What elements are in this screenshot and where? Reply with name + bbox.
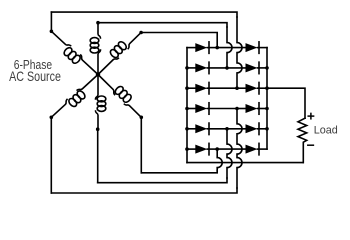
node DL terminal — [50, 116, 54, 120]
node mid row5 — [225, 127, 229, 131]
node right bus row3 — [265, 86, 269, 90]
diode D11 row5 right — [227, 123, 267, 135]
wire D terminal down to bottom line — [97, 129, 99, 183]
node right bus row5 — [265, 127, 269, 131]
diode D10 row4 right — [237, 103, 267, 115]
node D terminal — [96, 127, 100, 131]
diode D3 row3 left — [187, 82, 237, 94]
diode D5 row5 left — [187, 123, 227, 135]
label + — [308, 113, 313, 118]
label - — [308, 144, 314, 146]
node mid row6 — [215, 147, 219, 151]
node right bus row4 — [265, 107, 269, 111]
diode D4 row4 left — [187, 103, 237, 115]
node U terminal — [96, 21, 100, 25]
node star center — [96, 72, 100, 76]
node mid row4 — [235, 107, 239, 111]
wire right bus — [266, 48, 268, 150]
wire DR terminal down to bottom line — [140, 117, 142, 173]
inductor L6 down-right arm — [96, 69, 147, 120]
node mid row3 — [235, 86, 239, 90]
wire vertical x=237 down to row3, hops rows1,2 — [237, 17, 242, 88]
wire DL terminal down to bottom line — [50, 117, 52, 193]
diode D2 row2 left — [187, 62, 227, 74]
wire left bus — [186, 48, 188, 163]
wire positive tap row3 to load — [267, 88, 305, 118]
node left bus row6 — [185, 147, 189, 151]
inductor L5 down-left arm — [50, 73, 104, 124]
inductor L2 up-right arm — [92, 27, 143, 77]
node mid row2 — [225, 66, 229, 70]
node right bus row2 — [265, 66, 269, 70]
wire top line 1 (UL phase to x=237) — [51, 12, 237, 17]
svg-text:AC Source: AC Source — [9, 69, 61, 84]
node left bus row2 — [185, 66, 189, 70]
inductor L4 down arm — [96, 75, 106, 130]
inductor L3 up-left arm — [46, 29, 100, 80]
node UL terminal — [50, 30, 54, 34]
wire bottom line (DR phase to x=217) — [141, 171, 217, 173]
wire top line 2 (U phase to x=227) — [98, 23, 227, 27]
diode D9 row3 right — [237, 82, 267, 94]
wire vertical x=227 up to row5, hops row6,negbus — [227, 129, 232, 178]
label AC Source — [9, 69, 61, 84]
diode D1 row1 left — [187, 42, 217, 54]
diode D12 row6 right — [217, 143, 267, 155]
resistor Load — [298, 118, 307, 162]
wire UL terminal up to top line — [50, 12, 52, 31]
diode D8 row2 right — [227, 62, 267, 74]
wire negative bus — [187, 162, 303, 164]
diode D7 row1 right — [217, 42, 267, 54]
node left bus row3 — [185, 86, 189, 90]
wire vertical x=227 down to row2, hops row1 — [227, 27, 232, 68]
wire bottom line (D phase to x=227) — [98, 178, 227, 183]
label 6-Phase — [14, 57, 53, 73]
diode D6 row6 left — [187, 143, 217, 155]
wire bottom line (DL phase to x=237) — [51, 188, 237, 193]
node left bus row5 — [185, 127, 189, 131]
node DR terminal — [140, 116, 144, 120]
wire vertical x=237 up to row4, hops rows5,6,negbus — [237, 109, 242, 189]
node UR terminal — [139, 31, 143, 35]
svg-text:Load: Load — [314, 125, 338, 137]
wire top line 3 (UR phase to x=217) — [141, 33, 217, 48]
node mid row1 — [215, 46, 219, 50]
inductor L1 up arm — [90, 23, 100, 75]
node left bus row4 — [185, 107, 189, 111]
wire vertical x=217 up to row6, hops negbus — [217, 149, 222, 170]
